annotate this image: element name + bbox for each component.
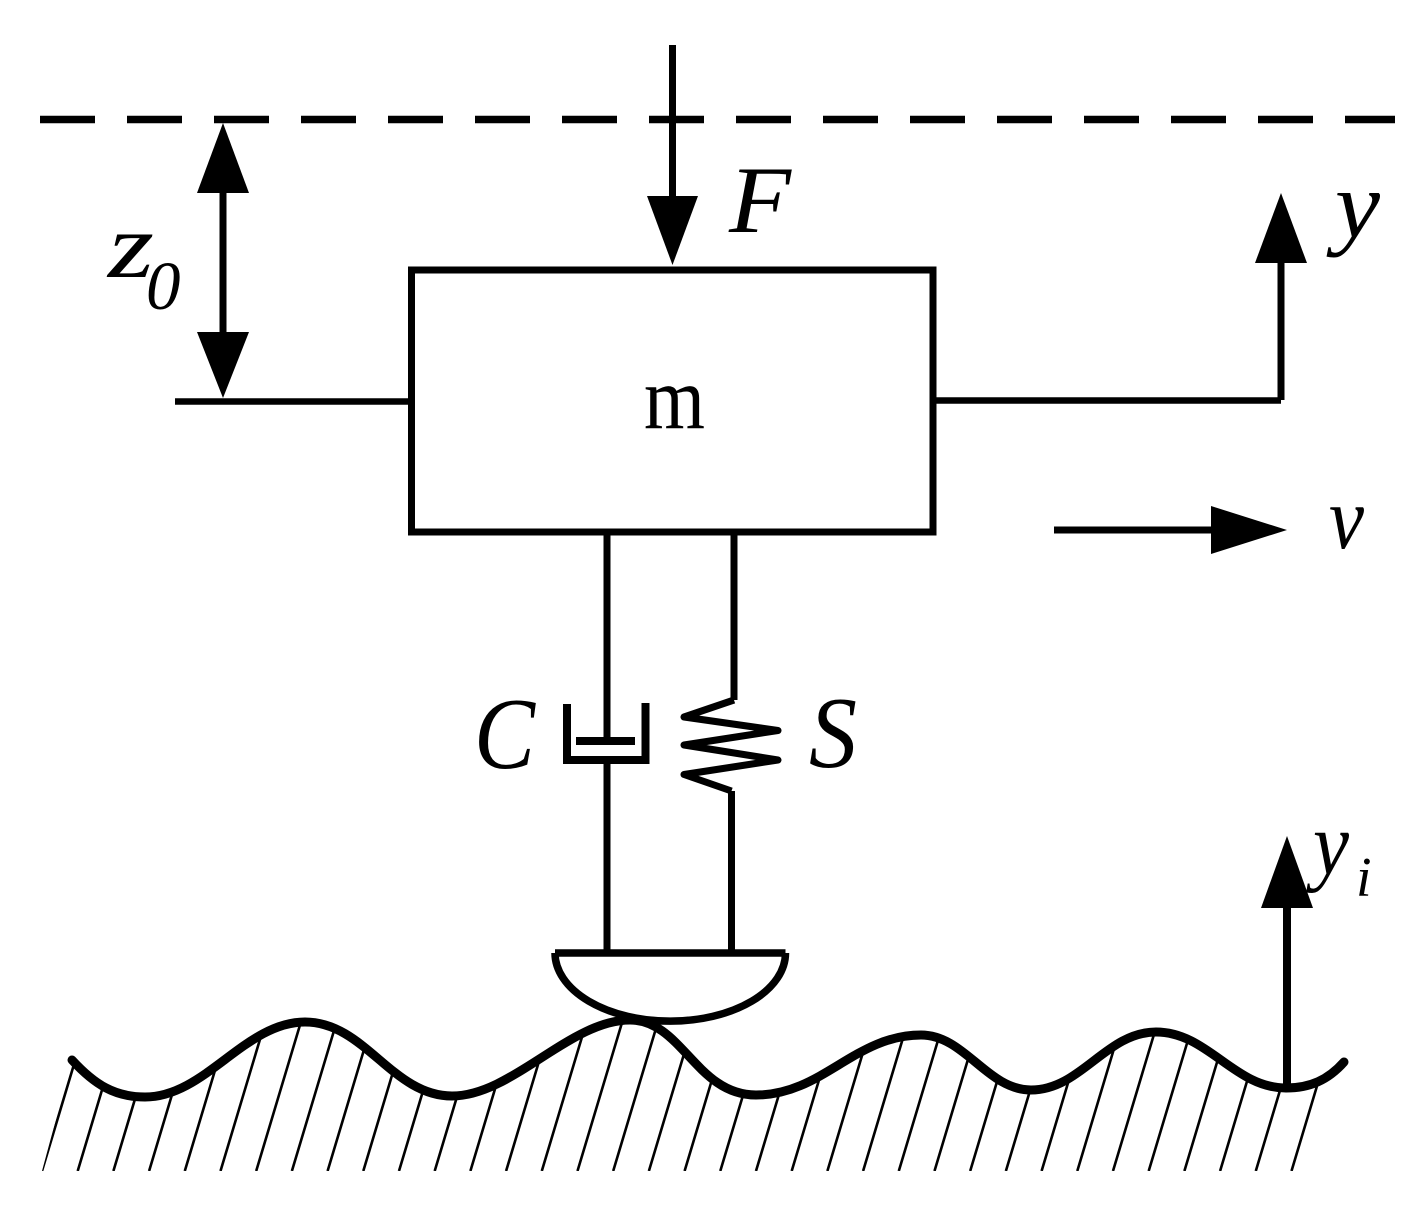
- damper cup: [567, 703, 646, 760]
- y axis arrow line: [1278, 260, 1285, 400]
- damper lower rod: [604, 760, 611, 953]
- left reference line: [175, 398, 411, 405]
- damper piston plate: [576, 737, 635, 745]
- dimension arrow z0 bottom head: [197, 332, 249, 398]
- dimension arrow z0 line: [220, 190, 227, 335]
- spring lower lead: [728, 791, 735, 953]
- force arrow F head: [647, 196, 698, 265]
- wheel dome flat top: [555, 949, 786, 957]
- spring coil: [684, 700, 778, 791]
- svg-text:C: C: [474, 678, 536, 791]
- mass box: [412, 270, 934, 532]
- dimension arrow z0 top head: [197, 123, 249, 193]
- svg-text:m: m: [644, 350, 705, 448]
- svg-text:F: F: [728, 147, 792, 253]
- spring upper lead: [731, 532, 738, 700]
- datum dashed line: [40, 116, 1395, 124]
- svg-text:i: i: [1356, 847, 1372, 909]
- ground displacement arrow yi line: [1283, 905, 1291, 1088]
- ground displacement arrow yi head: [1261, 836, 1313, 908]
- svg-text:v: v: [1329, 470, 1364, 568]
- y axis arrow head: [1255, 193, 1307, 263]
- velocity arrow v head: [1211, 506, 1287, 554]
- damper upper rod: [604, 532, 611, 738]
- svg-text:S: S: [809, 677, 857, 790]
- svg-text:y: y: [1326, 152, 1380, 258]
- svg-text:y: y: [1306, 796, 1350, 894]
- svg-text:0: 0: [146, 248, 181, 324]
- ground wave: [72, 1020, 1344, 1097]
- ground hatching: [42, 1015, 1338, 1171]
- velocity arrow v line: [1054, 527, 1215, 534]
- force arrow F line: [669, 45, 676, 200]
- right reference line: [935, 397, 1281, 404]
- wheel dome arc: [555, 953, 786, 1021]
